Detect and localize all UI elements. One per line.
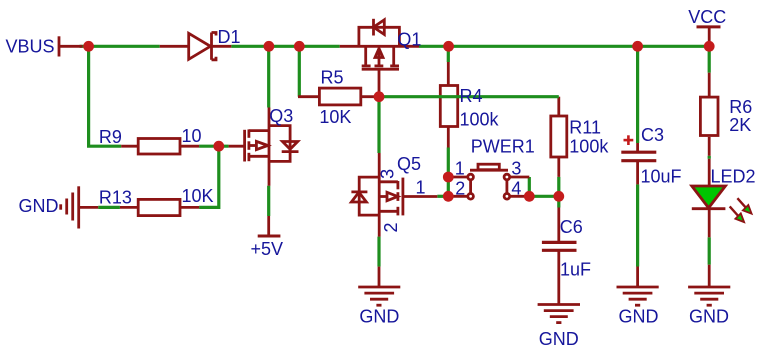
svg-text:R5: R5 bbox=[321, 68, 344, 88]
svg-text:GND: GND bbox=[689, 306, 729, 326]
svg-text:GND: GND bbox=[19, 196, 59, 216]
svg-text:LED2: LED2 bbox=[711, 167, 756, 187]
svg-text:Q1: Q1 bbox=[397, 29, 421, 49]
svg-text:Q3: Q3 bbox=[269, 106, 293, 126]
svg-text:+5V: +5V bbox=[251, 239, 284, 259]
svg-text:R4: R4 bbox=[460, 86, 483, 106]
svg-text:GND: GND bbox=[359, 306, 399, 326]
svg-text:2K: 2K bbox=[729, 115, 751, 135]
svg-text:3: 3 bbox=[511, 159, 521, 179]
svg-text:C6: C6 bbox=[560, 217, 583, 237]
svg-text:3: 3 bbox=[378, 169, 398, 179]
svg-text:D1: D1 bbox=[218, 27, 241, 47]
svg-text:GND: GND bbox=[539, 329, 579, 349]
svg-text:10K: 10K bbox=[182, 186, 214, 206]
svg-text:100k: 100k bbox=[460, 109, 500, 129]
svg-text:1: 1 bbox=[455, 159, 465, 179]
svg-text:4: 4 bbox=[511, 178, 521, 198]
svg-text:R6: R6 bbox=[729, 97, 752, 117]
svg-text:GND: GND bbox=[619, 306, 659, 326]
svg-text:VBUS: VBUS bbox=[6, 37, 55, 57]
svg-text:100k: 100k bbox=[569, 136, 609, 156]
svg-text:1uF: 1uF bbox=[560, 259, 591, 279]
svg-text:Q5: Q5 bbox=[397, 154, 421, 174]
svg-text:2: 2 bbox=[381, 222, 401, 232]
svg-text:10uF: 10uF bbox=[641, 166, 682, 186]
svg-text:PWER1: PWER1 bbox=[471, 136, 535, 156]
svg-text:VCC: VCC bbox=[688, 7, 726, 27]
svg-text:R11: R11 bbox=[569, 118, 601, 138]
svg-text:2: 2 bbox=[455, 178, 465, 198]
svg-text:10: 10 bbox=[182, 126, 202, 146]
svg-text:1: 1 bbox=[415, 178, 425, 198]
svg-text:R13: R13 bbox=[99, 187, 132, 207]
svg-text:10K: 10K bbox=[319, 107, 351, 127]
svg-text:C3: C3 bbox=[641, 125, 664, 145]
svg-text:R9: R9 bbox=[99, 127, 122, 147]
